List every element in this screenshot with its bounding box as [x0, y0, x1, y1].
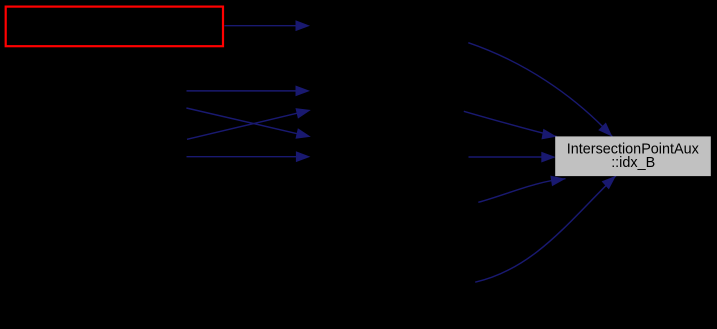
svg-text:::idx_B: ::idx_B — [611, 155, 655, 171]
